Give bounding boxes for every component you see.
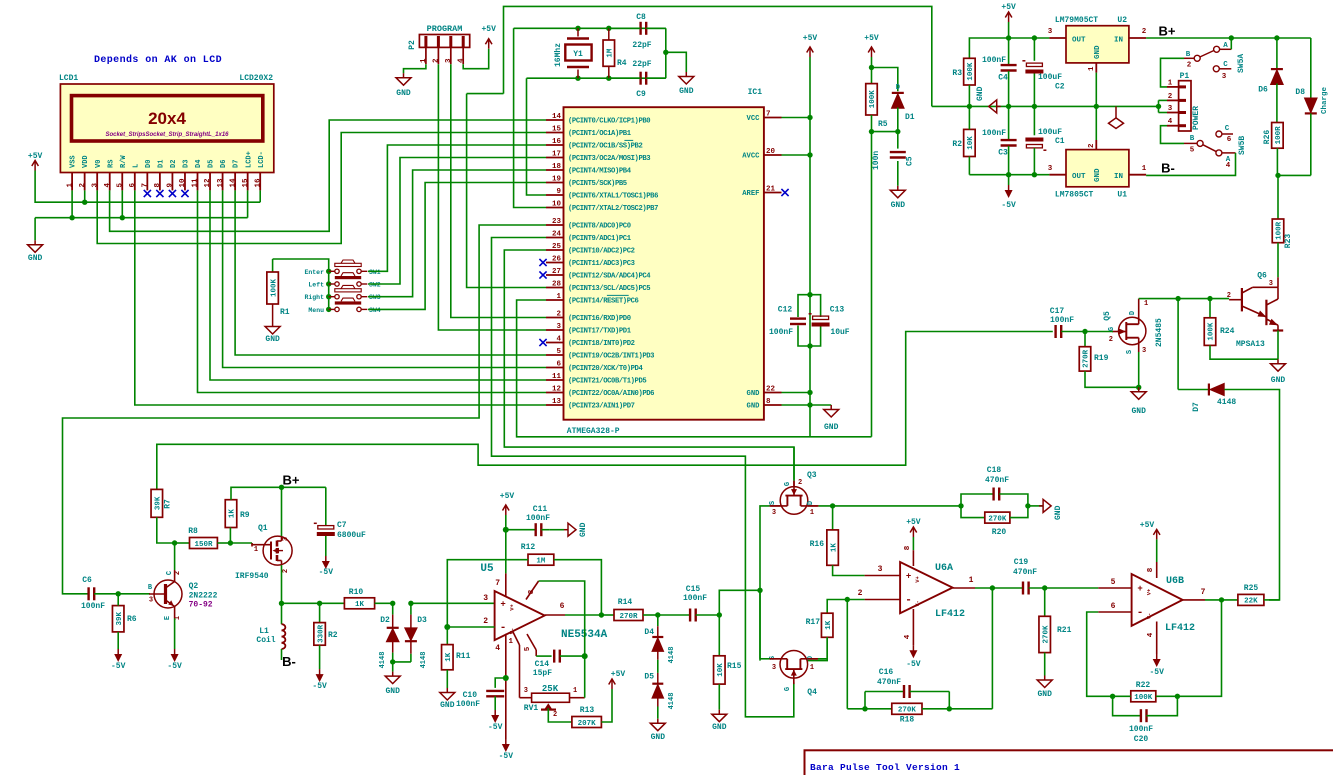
svg-text:18: 18 [552,163,562,171]
svg-text:+5V: +5V [1140,521,1155,530]
wire Q5 drain to Q6 base [1139,298,1229,300]
svg-text:C4: C4 [998,74,1008,83]
MCU pin 19 (PCINT5/SCK)PB5 [546,182,564,184]
svg-text:SW1: SW1 [369,269,381,276]
wire R24 bottom to Q6 emitter and ground [1210,345,1278,359]
svg-text:D: D [807,501,815,505]
resistor R7 39K [151,489,163,517]
capacitor C2 100uF [1033,38,1035,61]
svg-text:+5V: +5V [611,670,626,679]
svg-text:SW4: SW4 [369,307,381,314]
wire crystal bottom rail [527,77,666,79]
svg-text:6: 6 [560,602,565,611]
wire B+ to C7 [282,486,326,488]
svg-text:1: 1 [969,576,974,585]
-5V rail [969,174,1049,176]
svg-text:-: - [1137,607,1144,619]
svg-text:R19: R19 [1094,354,1109,363]
svg-text:330R: 330R [317,624,325,643]
svg-text:100K: 100K [967,62,975,81]
svg-text:4: 4 [1168,118,1173,126]
LCD pin 8 D1 [159,173,161,191]
wire crystal top to MCU PB7 pin10 [514,28,546,207]
overline RESET on PC6 name [607,294,629,296]
svg-text:4148: 4148 [668,693,676,710]
wire LCD pin15 [247,190,249,217]
svg-text:21: 21 [766,186,776,194]
svg-text:G: G [1108,327,1116,331]
wire U5 pin7 [505,515,507,573]
svg-text:8: 8 [904,545,912,550]
svg-text:3: 3 [556,323,561,331]
svg-text:1: 1 [1142,165,1147,173]
LCD pin 3 V0 [96,173,98,191]
svg-text:U1: U1 [1117,191,1127,200]
wire R12 right to output [554,560,602,615]
wire U6B - to R22 C20 feedback [1087,612,1113,696]
svg-text:GND: GND [712,723,727,732]
junction [807,343,812,348]
svg-text:U5: U5 [480,563,494,575]
svg-text:1M: 1M [536,558,546,566]
wire MCU PC2 pin25 to Q3 gate [504,250,794,480]
svg-text:4: 4 [1226,162,1231,170]
svg-text:20: 20 [766,148,776,156]
svg-text:1: 1 [254,546,258,554]
svg-text:R16: R16 [810,540,825,549]
svg-text:PROGRAM: PROGRAM [427,24,463,34]
svg-text:R17: R17 [806,618,821,627]
svg-text:C10: C10 [463,691,478,700]
junction [990,585,995,590]
svg-text:(PCINT1/OC1A)PB1: (PCINT1/OC1A)PB1 [568,130,632,138]
svg-text:LF412: LF412 [1165,623,1195,634]
svg-text:8: 8 [766,398,771,406]
svg-text:D2: D2 [380,616,390,625]
junction [717,612,722,617]
junction [390,601,395,606]
svg-text:3: 3 [1048,28,1053,36]
ground (R11) [446,688,448,693]
svg-text:(PCINT17/TXD)PD1: (PCINT17/TXD)PD1 [568,328,632,336]
svg-text:3: 3 [149,597,153,605]
svg-text:AVCC: AVCC [742,153,760,161]
svg-text:SW3: SW3 [369,294,381,301]
svg-text:15: 15 [242,178,250,188]
svg-text:GND: GND [824,423,839,432]
svg-text:AREF: AREF [742,190,759,198]
svg-text:Menu: Menu [308,307,324,314]
svg-text:GND: GND [747,390,761,398]
svg-text:E: E [164,616,172,620]
no-connect X on AREF [781,189,788,196]
svg-text:VDD: VDD [82,155,90,168]
svg-text:4: 4 [904,634,912,639]
svg-text:VSS: VSS [70,155,78,168]
MCU pin 6 (PCINT20/XCK/T0)PD4 [546,367,564,369]
wire SW5A common to P1 pin1 [1161,58,1185,87]
svg-text:100nF: 100nF [1129,725,1153,734]
wire U6A - to feedback [846,600,848,709]
svg-text:C: C [1223,61,1228,69]
resistor R16 1K [832,506,834,530]
svg-text:22K: 22K [1244,598,1258,606]
svg-text:19: 19 [552,176,562,184]
svg-text:Q3: Q3 [807,471,817,480]
junction [1274,35,1279,40]
svg-text:15pF: 15pF [533,669,552,678]
diode D8 Charge [1310,38,1312,99]
MCU pin 11 (PCINT21/OC0B/T1)PD5 [546,379,564,381]
wire LCD pin11 to MCU PD6 [198,190,547,392]
switch SW5B [1197,140,1203,146]
svg-text:(PCINT11/ADC3)PC3: (PCINT11/ADC3)PC3 [568,260,635,268]
ground (MCU) [830,405,832,410]
svg-text:3: 3 [772,509,776,517]
inductor L1 Coil [281,603,283,624]
wire SW4 to MCU [368,183,546,310]
MCU pin 20 AVCC [764,154,782,156]
LCD pin 13 D6 [222,173,224,191]
svg-text:LCD-: LCD- [258,151,266,168]
svg-text:22pF: 22pF [632,60,651,69]
svg-text:LF412: LF412 [935,609,965,620]
svg-text:7: 7 [1201,588,1206,597]
svg-text:D1: D1 [905,113,915,122]
svg-text:V+: V+ [509,604,516,611]
svg-text:G: G [784,482,792,486]
wire P1 pin4 to SW5B common [1161,126,1185,144]
junction [444,624,450,630]
svg-text:5: 5 [1111,578,1116,587]
svg-text:-5V: -5V [1149,668,1164,677]
svg-text:100R: 100R [1276,221,1284,240]
wire Q3 drain row [808,505,819,507]
junction [1219,597,1224,602]
svg-text:-5V: -5V [906,660,921,669]
svg-text:GND: GND [28,254,43,263]
LCD pin 11 D4 [197,173,199,191]
svg-text:(PCINT5/SCK)PB5: (PCINT5/SCK)PB5 [568,180,627,188]
no-connect X on LCD pin 10 [181,190,188,197]
MCU pin 27 (PCINT12/SDA/ADC4)PC4 [546,274,564,276]
svg-text:R14: R14 [618,598,633,607]
svg-text:2: 2 [1142,28,1147,36]
svg-text:D7: D7 [233,160,241,168]
ground below P2 [403,73,405,78]
voltage regulator U1 LM7805CT [1066,150,1129,187]
resistor R21 270K [1044,588,1046,616]
no-connect X on LCD pin 7 [144,190,151,197]
wire MCU PC1 pin24 to Q4 gate [492,238,794,717]
svg-text:C6: C6 [82,576,92,585]
svg-text:L: L [132,164,140,168]
svg-text:5: 5 [116,183,124,188]
svg-text:70-92: 70-92 [189,601,213,610]
svg-text:6: 6 [1227,136,1232,144]
svg-text:LCD20X2: LCD20X2 [239,74,273,83]
svg-text:(PCINT20/XCK/T0)PD4: (PCINT20/XCK/T0)PD4 [568,365,643,373]
svg-text:U2: U2 [1117,16,1127,25]
svg-text:15: 15 [552,126,562,134]
+5V symbol (MCU VCC) [809,47,811,57]
svg-text:100K: 100K [1134,694,1153,702]
no-connect X on MCU pin 27 [539,271,546,278]
svg-text:(PCINT16/RXD)PD0: (PCINT16/RXD)PD0 [568,315,631,323]
resistor R3 100K [964,58,976,85]
svg-text:-5V: -5V [319,568,334,577]
svg-text:R24: R24 [1220,327,1235,336]
svg-text:R2: R2 [952,140,962,149]
svg-text:D6: D6 [1258,86,1268,95]
svg-text:R11: R11 [456,652,471,661]
svg-text:1: 1 [810,664,814,672]
no-connect X on MCU pin 26 [539,259,546,266]
svg-text:23: 23 [552,218,562,226]
svg-text:SW5B: SW5B [1238,136,1247,155]
svg-text:(PCINT2/OC1B/SS)PB2: (PCINT2/OC1B/SS)PB2 [568,143,642,151]
resistor R23 100R [1272,219,1284,243]
junction [606,76,611,81]
svg-text:3: 3 [483,594,488,603]
wire AVCC pin20 [782,154,811,156]
svg-text:G: G [784,687,792,691]
svg-text:C20: C20 [1134,735,1149,744]
svg-text:3: 3 [772,664,776,672]
wire R18 right up to U6A output [991,588,993,709]
svg-text:5: 5 [1190,147,1195,155]
svg-text:100n: 100n [872,151,881,170]
svg-text:1: 1 [1168,79,1173,87]
+5V (U5 pin7) [505,505,507,515]
no-connect X on LCD pin 9 [169,190,176,197]
svg-text:D5: D5 [644,673,654,682]
wire Q4 source [760,658,770,660]
svg-text:(PCINT18/INT0)PD2: (PCINT18/INT0)PD2 [568,340,635,348]
svg-text:22: 22 [766,386,776,394]
MCU pin 24 (PCINT9/ADC1)PC1 [546,237,564,239]
resistor R9 1K [225,500,237,528]
wire B+ rail [1146,37,1311,39]
svg-text:R12: R12 [521,543,536,552]
junction [1025,503,1030,508]
svg-text:+5V: +5V [1001,3,1016,12]
no-connect X on LCD pin 8 [156,190,163,197]
svg-text:470nF: 470nF [985,476,1009,485]
wire R1 top to button common [273,259,329,309]
svg-text:3: 3 [1142,347,1146,355]
LCD pin 12 D5 [209,173,211,191]
wire SW5B A to B- rail [1146,153,1235,176]
svg-text:GND: GND [976,86,985,101]
svg-text:(PCINT10/ADC2)PC2: (PCINT10/ADC2)PC2 [568,248,635,256]
wire R7 top chain to C17 [157,332,1053,490]
svg-text:+: + [1137,584,1142,594]
svg-text:Enter: Enter [304,269,324,276]
svg-text:LM79M05CT: LM79M05CT [1055,16,1098,25]
svg-text:R1: R1 [280,308,290,317]
MCU pin 8 GND [764,404,782,406]
junction [869,65,874,70]
resistor R24 100K [1209,299,1211,318]
svg-text:8: 8 [1147,567,1155,572]
svg-text:-5V: -5V [111,662,126,671]
MCU pin 2 (PCINT16/RXD)PD0 [546,317,564,319]
wire MCU RESET pin1 to R5/D1 node [517,300,872,437]
diode D7 4148 [1177,299,1179,390]
svg-text:IC1: IC1 [748,88,763,97]
wire VCC pin7 [782,117,811,119]
wire C6 to Q2 base [118,593,150,595]
svg-text:1: 1 [556,293,561,301]
svg-text:3: 3 [1222,73,1227,81]
ground (crystal) [685,72,687,77]
transistor Q2 2N2222 [154,580,182,608]
svg-text:Q2: Q2 [189,582,199,591]
svg-text:C15: C15 [686,585,701,594]
svg-text:27: 27 [552,268,561,276]
junction [1032,104,1037,109]
svg-text:RV1: RV1 [524,704,539,713]
wire P2 pin2 to MCU PD1 TXD [438,64,546,330]
MCU pin 14 (PCINT0/CLKO/ICP1)PB0 [546,119,564,121]
svg-text:(PCINT0/CLKO/ICP1)PB0: (PCINT0/CLKO/ICP1)PB0 [568,118,650,126]
svg-text:2: 2 [483,617,488,626]
svg-text:+5V: +5V [906,518,921,527]
wire R17 bottom to Q4 drain [808,637,828,660]
resistor R2 330R [319,603,321,622]
junction [1136,385,1141,390]
svg-text:GND: GND [396,89,411,98]
svg-text:-5V: -5V [488,723,503,732]
+5V (U6A pin8) [912,527,914,537]
resistor R17 1K [827,600,847,614]
wire R19 bottom to Q5 source [1085,371,1139,387]
wire R1 bottom to GND [272,304,274,322]
svg-text:100nF: 100nF [683,594,707,603]
junction [869,129,874,134]
svg-text:LM7805CT: LM7805CT [1055,191,1094,200]
wire output down to R22 [1177,600,1221,696]
svg-text:7: 7 [766,111,771,119]
capacitor C10 100nF [495,678,506,688]
svg-text:A: A [1223,42,1228,50]
svg-text:14: 14 [552,113,562,121]
junction [663,50,668,55]
svg-text:(PCINT23/AIN1)PD7: (PCINT23/AIN1)PD7 [568,403,635,411]
svg-text:R10: R10 [349,588,364,597]
svg-text:2: 2 [553,711,557,719]
svg-text:2: 2 [858,589,863,598]
svg-text:(PCINT22/OC0A/AIN0)PD6: (PCINT22/OC0A/AIN0)PD6 [568,390,654,398]
svg-text:100nF: 100nF [526,514,550,523]
junction [947,706,952,711]
svg-text:IN: IN [1114,173,1123,181]
svg-text:V-: V- [1146,613,1153,620]
+5V symbol (LCD) [34,161,36,171]
svg-text:V+: V+ [1146,588,1153,595]
svg-text:+5V: +5V [481,25,496,34]
svg-text:-5V: -5V [167,662,182,671]
svg-text:LCD1: LCD1 [59,74,78,83]
resistor R5 100K and diode D1 (reset) [871,47,873,57]
svg-text:100uF: 100uF [1038,128,1062,137]
MCU pin 7 VCC [764,117,782,119]
svg-text:1: 1 [508,638,513,646]
MCU pin 22 GND [764,392,782,394]
title block frame [805,750,1333,775]
wire gate row to Q1 [230,542,252,544]
MCU pin 5 (PCINT19/OC2B/INT1)PD3 [546,354,564,356]
svg-text:C7: C7 [337,521,347,530]
junction [116,591,121,596]
svg-text:270K: 270K [1042,625,1050,644]
junction [599,612,604,617]
junction [390,659,395,664]
ground (C5) [897,186,899,191]
MCU pin 10 (PCINT7/XTAL2/TOSC2)PB7 [546,207,564,209]
svg-text:D3: D3 [183,160,191,168]
GND symbol (LCD) [34,218,36,241]
MCU pin 18 (PCINT4/MISO)PB4 [546,169,564,171]
svg-text:5: 5 [524,646,532,651]
ground (D2 D3) [392,662,394,672]
junction [655,612,660,617]
svg-text:C18: C18 [987,466,1002,475]
svg-text:C14: C14 [535,660,550,669]
svg-text:D7: D7 [1192,402,1201,412]
svg-text:100nF: 100nF [982,129,1006,138]
wire Q2 collector to R8 node [174,543,176,570]
svg-text:(PCINT9/ADC1)PC1: (PCINT9/ADC1)PC1 [568,235,632,243]
junction [1032,35,1037,40]
junction [82,200,87,205]
svg-text:2N2222: 2N2222 [189,592,218,601]
svg-text:D3: D3 [417,616,427,625]
svg-text:1K: 1K [229,509,237,519]
MCU pin 17 (PCINT3/OC2A/MOSI)PB3 [546,157,564,159]
junction [575,76,580,81]
svg-text:3: 3 [1168,105,1173,113]
svg-text:L1: L1 [259,627,269,636]
MCU pin 21 AREF [764,192,782,194]
svg-text:100K: 100K [1208,322,1216,341]
wire B+ down through Q1 [281,487,283,536]
wire LCD pin16 [259,190,261,202]
junction [807,152,812,157]
wire R16 to U6A + input [833,565,865,575]
junction [120,215,125,220]
svg-text:2N5485: 2N5485 [1155,318,1164,347]
wire SW5A A to B+ [1230,38,1232,49]
svg-text:14: 14 [229,178,237,188]
svg-text:4: 4 [104,183,112,188]
svg-text:C11: C11 [533,505,548,514]
U5 pin 4 to -5V [505,634,507,739]
wire C15 node up to Q3/Q4 sources [719,590,760,615]
svg-text:11: 11 [552,373,562,381]
svg-text:1: 1 [810,509,814,517]
svg-text:R3: R3 [952,69,962,78]
LCD pin 4 RS [109,173,111,191]
wire R7 bottom to R8 node [157,517,175,543]
svg-text:IRF9540: IRF9540 [235,572,269,581]
svg-text:-5V: -5V [499,752,514,761]
svg-text:GND: GND [579,522,588,537]
junction [408,601,413,606]
junction [807,115,812,120]
junction [1094,104,1099,109]
